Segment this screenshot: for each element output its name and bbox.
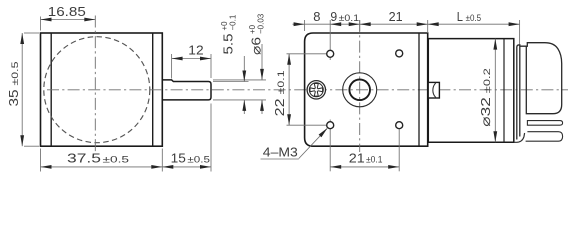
dim 37.5 arrows (41, 165, 163, 169)
dim 22 line (288, 54, 290, 125)
shaft flat extension line (213, 81, 249, 83)
dim dia6 label (248, 13, 265, 55)
svg-text:37.5: 37.5 (67, 151, 101, 166)
dim 21 bottom arrows (330, 165, 399, 169)
view1 gearbox body outline (41, 33, 163, 146)
dim 21 bottom label (349, 151, 383, 166)
dim 37.5 label (67, 151, 129, 166)
view1 dashed circle (gear circle) (44, 37, 150, 143)
M3 hole top-left (327, 50, 334, 57)
svg-text:±0.5: ±0.5 (10, 62, 21, 86)
phillips screw outer circle (307, 81, 325, 99)
M3 hole bottom-right (396, 122, 403, 129)
view3 terminal tab upper (527, 121, 562, 126)
dim dia6 line upper (260, 44, 264, 80)
dim 12 label (188, 43, 203, 58)
shaft bottom extension line (213, 99, 266, 101)
4-M3 leader line (299, 128, 328, 159)
top chain ext 304.6 (304, 20, 306, 31)
dim 8 label (313, 9, 320, 24)
svg-text:−0.1: −0.1 (229, 14, 238, 30)
hole ext line column left bottom (329, 120, 331, 172)
svg-text:−0.03: −0.03 (257, 13, 266, 34)
dim 16.85 label (48, 4, 86, 19)
svg-text:±0.5: ±0.5 (466, 13, 482, 24)
dim 16.85 arrows (41, 18, 96, 22)
shaft boss outer circle (343, 73, 377, 107)
top chain ext 427.7 (427, 20, 429, 33)
view2 centreline vertical (359, 20, 361, 152)
dim 9 label (330, 9, 359, 24)
view3 terminal tab lower (526, 132, 563, 142)
svg-text:21: 21 (349, 151, 365, 166)
svg-text:4–M3: 4–M3 (263, 144, 298, 159)
svg-text:5.5: 5.5 (220, 34, 235, 55)
dim 16.85 extension line (40, 17, 42, 31)
dim 35 label (6, 62, 21, 107)
svg-text:12: 12 (188, 43, 203, 58)
svg-text:9: 9 (330, 9, 337, 24)
phillips screw inner circle (309, 83, 323, 97)
dim 15 extension line (210, 104, 212, 172)
svg-text:15: 15 (171, 151, 186, 166)
dim 12 line (172, 58, 211, 60)
dim L ext line (519, 20, 521, 44)
top chain arrows (294, 22, 520, 26)
dim 37.5 line (41, 166, 163, 168)
svg-text:22: 22 (272, 98, 287, 116)
hole ext line row bottom (287, 124, 327, 126)
top chain ext 359.7 (359, 20, 361, 31)
view1 right cap line (152, 33, 154, 146)
dim dia32 line (494, 39, 496, 143)
4-M3 leader underline (261, 158, 299, 160)
svg-text:±0.2: ±0.2 (482, 68, 493, 93)
view3 can seam line (503, 39, 505, 143)
dim 37.5 extension lines (41, 149, 163, 172)
dim 12 extension lines (172, 54, 211, 79)
dim 15 arrows (162, 165, 211, 169)
dim 5.5 label (220, 14, 237, 54)
M3 hole top-right (396, 50, 403, 57)
dim dia32 arrows (493, 39, 497, 143)
hole ext line row top (287, 53, 328, 55)
dim 5.5 line upper (242, 56, 246, 82)
view1 left cap line (50, 33, 52, 146)
hole ext line column right bottom (398, 130, 400, 172)
dim L label (457, 9, 481, 24)
svg-text:⌀6: ⌀6 (248, 37, 263, 55)
svg-text:L: L (457, 9, 463, 24)
dim 35 arrows (20, 33, 24, 146)
svg-text:21: 21 (389, 9, 403, 24)
svg-text:±0.5: ±0.5 (187, 155, 210, 166)
M3 hole bottom-left (327, 122, 334, 129)
view3 can-to-tab connector (514, 133, 525, 142)
output shaft circle (349, 80, 370, 101)
svg-text:±0.1: ±0.1 (366, 155, 383, 166)
dim 35 extension lines (24, 33, 39, 146)
label 4-M3 (263, 144, 298, 159)
svg-text:8: 8 (313, 9, 320, 24)
dim dia32 label (478, 68, 493, 127)
view3 end cap rim (517, 45, 520, 140)
svg-text:±0.1: ±0.1 (276, 70, 287, 94)
svg-text:35: 35 (6, 90, 21, 107)
dim 16.85 line (41, 19, 96, 21)
dim 22 arrows (287, 54, 291, 125)
view2 face plate outline (305, 33, 428, 146)
dim 35 line (21, 33, 23, 146)
dim 22 label (272, 70, 287, 116)
svg-text:±0.5: ±0.5 (103, 155, 130, 166)
top chain dim line (293, 23, 520, 25)
dim dia6 line lower (260, 100, 264, 114)
view3 rear housing dome (520, 43, 562, 114)
dim 5.5 line lower (242, 100, 246, 114)
svg-text:±0.1: ±0.1 (339, 13, 360, 24)
dim 21 bottom line (330, 166, 399, 168)
view1 output shaft outline (162, 80, 211, 100)
view3 motor can outline (428, 39, 514, 143)
svg-text:16.85: 16.85 (48, 4, 86, 19)
global horizontal centreline (47, 89, 568, 91)
view3 shaft boss side (428, 82, 439, 98)
dim 15 label (171, 151, 210, 166)
shaft top extension line (213, 79, 266, 81)
view1 vertical centreline (94, 16, 96, 153)
view2 inner edge line (418, 33, 420, 146)
dim 15 line (162, 166, 211, 168)
svg-text:⌀32: ⌀32 (478, 97, 493, 127)
phillips screw cross recess (310, 84, 323, 97)
view3 motor face line (427, 39, 429, 143)
dim 12 arrows (172, 57, 211, 61)
hole ext line column left top (329, 20, 331, 60)
dim 21 top label (389, 9, 403, 24)
